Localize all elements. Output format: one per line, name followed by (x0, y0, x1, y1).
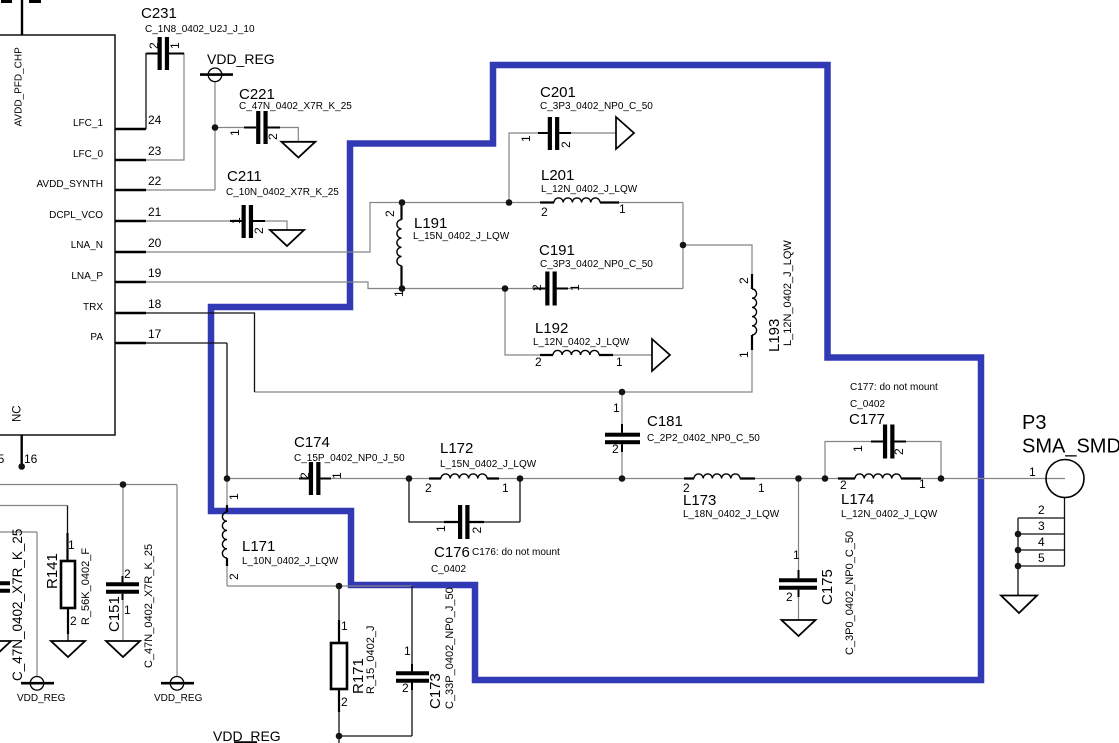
svg-text:2: 2 (786, 590, 793, 604)
svg-text:2: 2 (252, 227, 266, 234)
svg-text:1: 1 (168, 42, 182, 49)
svg-text:15: 15 (0, 452, 5, 466)
svg-text:1: 1 (227, 493, 241, 500)
svg-text:C_3P0_0402_NP0_C_50: C_3P0_0402_NP0_C_50 (844, 531, 856, 655)
svg-text:2: 2 (147, 42, 161, 49)
svg-text:PA: PA (90, 332, 103, 343)
svg-text:C201: C201 (540, 84, 576, 101)
svg-text:2: 2 (737, 277, 751, 284)
svg-text:LNA_P: LNA_P (71, 271, 103, 282)
svg-text:L191: L191 (414, 215, 447, 232)
svg-text:VDD_REG: VDD_REG (17, 693, 66, 704)
svg-text:5: 5 (1038, 551, 1045, 565)
svg-text:C_15P_0402_NP0_J_50: C_15P_0402_NP0_J_50 (294, 453, 405, 464)
svg-text:19: 19 (148, 266, 162, 280)
svg-text:NC: NC (12, 405, 24, 422)
svg-text:22: 22 (148, 174, 162, 188)
svg-text:2: 2 (298, 472, 312, 479)
svg-text:R_56K_0402_F: R_56K_0402_F (80, 548, 92, 625)
svg-text:2: 2 (266, 133, 280, 140)
svg-text:1: 1 (568, 284, 582, 291)
svg-text:C_2P2_0402_NP0_C_50: C_2P2_0402_NP0_C_50 (647, 433, 760, 444)
svg-text:24: 24 (148, 113, 162, 127)
svg-text:AVDD_PFD_CHP: AVDD_PFD_CHP (14, 47, 25, 127)
svg-text:23: 23 (148, 144, 162, 158)
svg-text:1: 1 (793, 548, 800, 562)
svg-text:2: 2 (470, 527, 484, 534)
svg-text:VDD_REG: VDD_REG (154, 693, 203, 704)
svg-text:C_33P_0402_NP0_J_50: C_33P_0402_NP0_J_50 (444, 587, 456, 709)
svg-text:1: 1 (616, 355, 623, 369)
svg-text:C177: do not mount: C177: do not mount (850, 382, 938, 393)
svg-text:L192: L192 (535, 320, 568, 337)
svg-text:AVDD_SYNTH: AVDD_SYNTH (37, 179, 104, 190)
svg-text:1: 1 (229, 217, 243, 224)
svg-text:P3: P3 (1022, 412, 1046, 434)
svg-text:L_12N_0402_J_LQW: L_12N_0402_J_LQW (841, 509, 938, 520)
svg-text:C_0402: C_0402 (431, 564, 466, 575)
svg-text:2: 2 (227, 573, 241, 580)
svg-text:LFC_0: LFC_0 (73, 149, 103, 160)
svg-text:L171: L171 (242, 538, 275, 555)
svg-text:1: 1 (1029, 465, 1036, 479)
svg-text:L_15N_0402_J_LQW: L_15N_0402_J_LQW (413, 231, 510, 242)
svg-text:SMA_SMD: SMA_SMD (1022, 436, 1119, 458)
svg-text:C173: C173 (427, 673, 444, 709)
svg-text:2: 2 (840, 478, 847, 492)
svg-text:2: 2 (425, 481, 432, 495)
svg-text:L_12N_0402_J_LQW: L_12N_0402_J_LQW (782, 240, 794, 346)
svg-text:C_10N_0402_X7R_K_25: C_10N_0402_X7R_K_25 (226, 187, 339, 198)
svg-text:1: 1 (392, 290, 406, 297)
svg-text:4: 4 (1038, 535, 1045, 549)
svg-text:L201: L201 (541, 167, 574, 184)
svg-text:L_15N_0402_J_LQW: L_15N_0402_J_LQW (440, 459, 537, 470)
svg-text:2: 2 (1038, 503, 1045, 517)
svg-text:1: 1 (851, 445, 865, 452)
svg-text:C181: C181 (647, 413, 683, 430)
svg-text:2: 2 (535, 355, 542, 369)
svg-text:VDD_REG: VDD_REG (207, 51, 275, 67)
svg-text:2: 2 (383, 210, 397, 217)
svg-text:18: 18 (148, 297, 162, 311)
svg-text:C177: C177 (849, 411, 885, 428)
svg-text:1: 1 (434, 525, 448, 532)
svg-text:3: 3 (1038, 519, 1045, 533)
svg-text:1: 1 (68, 538, 75, 552)
svg-text:C_1N8_0402_U2J_J_10: C_1N8_0402_U2J_J_10 (145, 24, 255, 35)
svg-text:1: 1 (228, 129, 242, 136)
svg-text:1: 1 (330, 472, 344, 479)
svg-text:L193: L193 (766, 319, 783, 352)
svg-text:1: 1 (613, 401, 620, 415)
svg-text:L172: L172 (440, 440, 473, 457)
svg-text:2: 2 (341, 695, 348, 709)
svg-text:C_47N_0402_X7R_K_25: C_47N_0402_X7R_K_25 (239, 101, 352, 112)
svg-text:C_47N_0402_X7R_K_25: C_47N_0402_X7R_K_25 (10, 529, 25, 681)
svg-text:20: 20 (148, 236, 162, 250)
svg-text:L_12N_0402_J_LQW: L_12N_0402_J_LQW (533, 337, 630, 348)
svg-text:C_47N_0402_X7R_K_25: C_47N_0402_X7R_K_25 (143, 544, 155, 668)
svg-text:C_0402: C_0402 (850, 399, 885, 410)
svg-text:L174: L174 (841, 491, 874, 508)
svg-text:1: 1 (519, 135, 533, 142)
svg-text:2: 2 (70, 614, 77, 628)
svg-text:C191: C191 (539, 242, 575, 259)
svg-text:C211: C211 (227, 168, 262, 185)
svg-text:1: 1 (758, 481, 765, 495)
svg-text:L_18N_0402_J_LQW: L_18N_0402_J_LQW (683, 509, 780, 520)
svg-text:C175: C175 (819, 569, 836, 605)
svg-text:C176: do not mount: C176: do not mount (472, 547, 560, 558)
svg-text:1: 1 (124, 603, 131, 617)
svg-text:C231: C231 (141, 5, 177, 22)
svg-text:1: 1 (919, 477, 926, 491)
svg-text:C174: C174 (294, 434, 330, 451)
svg-text:2: 2 (124, 567, 131, 581)
svg-text:1: 1 (619, 202, 626, 216)
svg-text:L_10N_0402_J_LQW: L_10N_0402_J_LQW (242, 556, 339, 567)
svg-text:DCPL_VCO: DCPL_VCO (49, 210, 103, 221)
svg-text:C_3P3_0402_NP0_C_50: C_3P3_0402_NP0_C_50 (540, 259, 653, 270)
svg-text:R141: R141 (44, 553, 61, 589)
svg-text:1: 1 (502, 481, 509, 495)
svg-text:LFC_1: LFC_1 (73, 118, 103, 129)
svg-text:R171: R171 (350, 658, 367, 694)
svg-text:2: 2 (530, 284, 544, 291)
svg-text:2: 2 (683, 481, 690, 495)
svg-text:C176: C176 (434, 544, 470, 561)
svg-text:1: 1 (341, 619, 348, 633)
svg-text:17: 17 (148, 327, 162, 341)
svg-text:2: 2 (892, 448, 906, 455)
svg-text:2: 2 (402, 681, 409, 695)
svg-text:C151: C151 (106, 596, 123, 632)
svg-text:TRX: TRX (83, 302, 103, 313)
svg-text:1: 1 (737, 351, 751, 358)
svg-text:C_3P3_0402_NP0_C_50: C_3P3_0402_NP0_C_50 (540, 101, 653, 112)
svg-text:VDD_REG: VDD_REG (213, 728, 281, 743)
svg-text:1: 1 (404, 644, 411, 658)
svg-text:2: 2 (559, 141, 573, 148)
svg-text:L_12N_0402_J_LQW: L_12N_0402_J_LQW (541, 184, 638, 195)
svg-text:2: 2 (612, 442, 619, 456)
svg-text:21: 21 (148, 205, 162, 219)
svg-text:16: 16 (24, 452, 38, 466)
svg-text:LNA_N: LNA_N (71, 240, 103, 251)
svg-text:2: 2 (541, 205, 548, 219)
